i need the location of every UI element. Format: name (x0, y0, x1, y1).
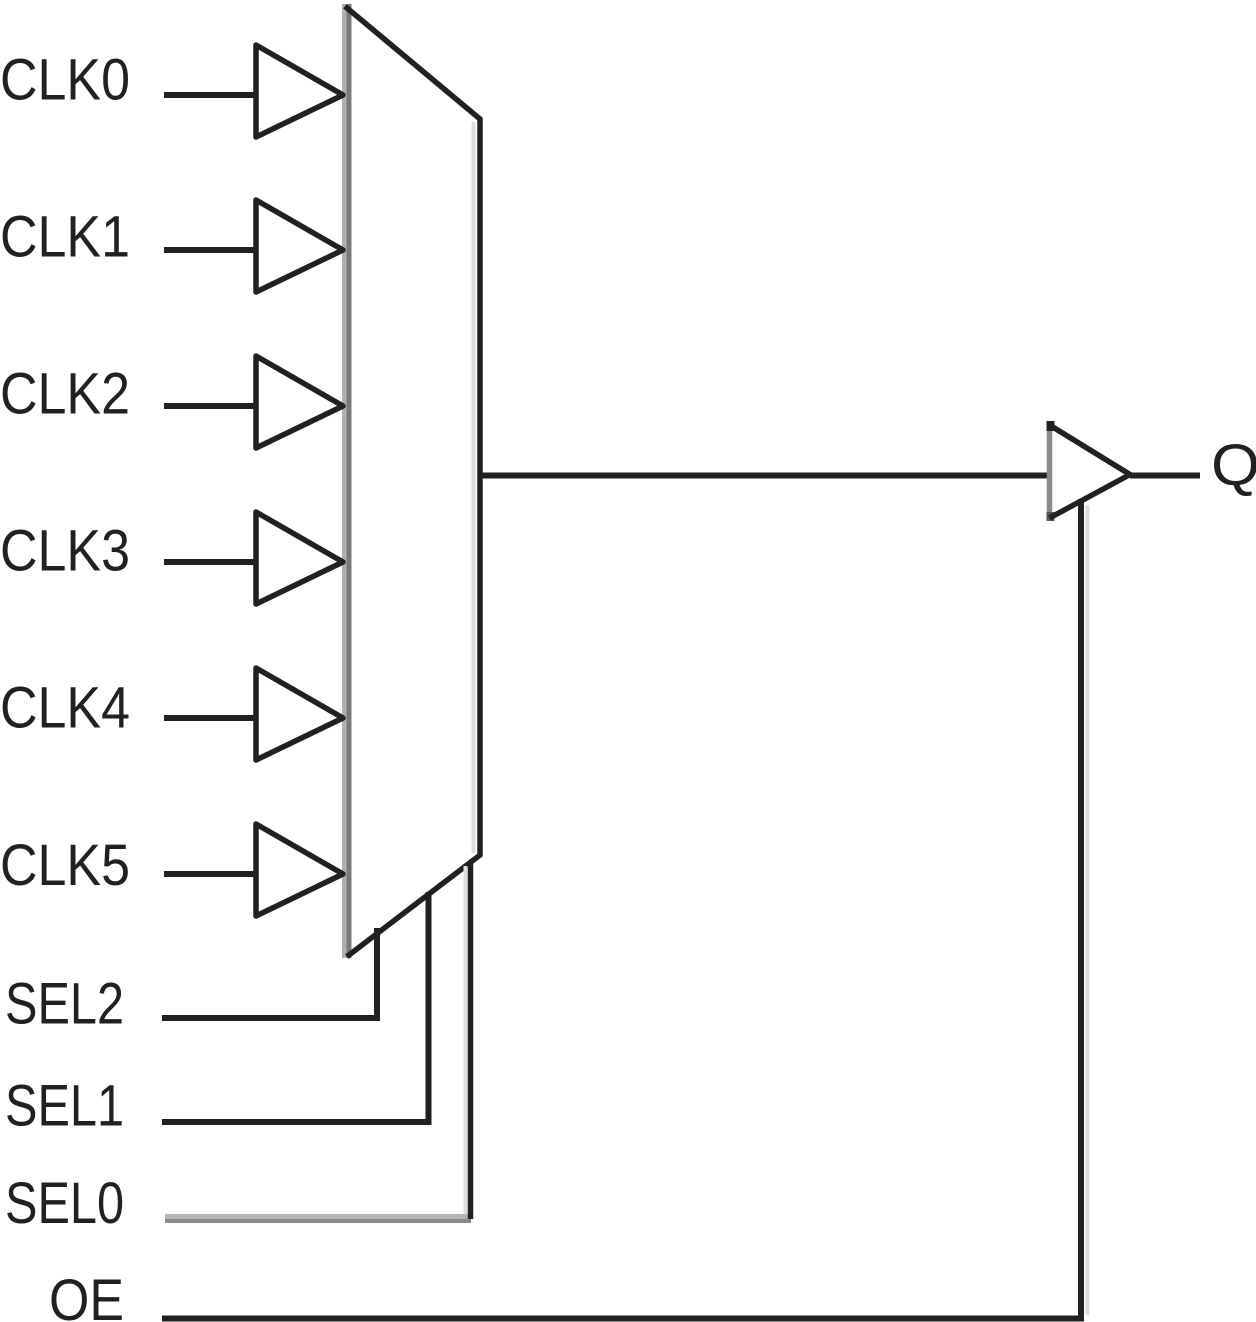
svg-text:SEL1: SEL1 (5, 1074, 124, 1139)
label SEL1 (5, 1074, 124, 1139)
label CLK2 (0, 362, 130, 427)
label CLK1 (0, 205, 130, 270)
wire Q output (1130, 473, 1200, 479)
wire CLK0 input (164, 92, 258, 98)
wire SEL2 (165, 931, 377, 1018)
output buffer (1047, 421, 1131, 521)
buffer CLK4 (256, 668, 343, 760)
multiplexer mux 6:1 outline (347, 8, 480, 955)
wire CLK2 input (164, 403, 258, 409)
wire CLK4 input (164, 715, 258, 721)
svg-text:CLK3: CLK3 (0, 519, 130, 584)
svg-text:OE: OE (49, 1268, 124, 1322)
wire CLK3 input (164, 559, 258, 565)
wire SEL1 (165, 895, 429, 1122)
wire CLK1 input (164, 247, 258, 253)
svg-text:SEL2: SEL2 (5, 972, 124, 1037)
label CLK0 (0, 48, 130, 113)
buffer CLK5 (256, 824, 343, 916)
svg-text:Q: Q (1211, 433, 1256, 498)
svg-text:CLK5: CLK5 (0, 833, 130, 898)
label CLK3 (0, 519, 130, 584)
buffer CLK0 (256, 45, 343, 137)
buffer CLK2 (256, 356, 343, 448)
svg-text:CLK2: CLK2 (0, 362, 130, 427)
buffer CLK1 (256, 200, 343, 292)
wire SEL0 (165, 863, 471, 1221)
svg-text:SEL0: SEL0 (5, 1171, 124, 1236)
multiplexer mux 6:1 body (345, 4, 474, 958)
label SEL0 (5, 1171, 124, 1236)
label SEL2 (5, 972, 124, 1037)
wire CLK5 input (164, 871, 258, 877)
wire OE (165, 502, 1088, 1319)
svg-text:CLK1: CLK1 (0, 205, 130, 270)
wire mux output (480, 473, 1049, 479)
label CLK5 (0, 833, 130, 898)
label CLK4 (0, 676, 130, 741)
label Q (1211, 433, 1256, 498)
buffer CLK3 (256, 512, 343, 604)
svg-text:CLK0: CLK0 (0, 48, 130, 113)
label OE (49, 1268, 124, 1322)
svg-text:CLK4: CLK4 (0, 676, 130, 741)
